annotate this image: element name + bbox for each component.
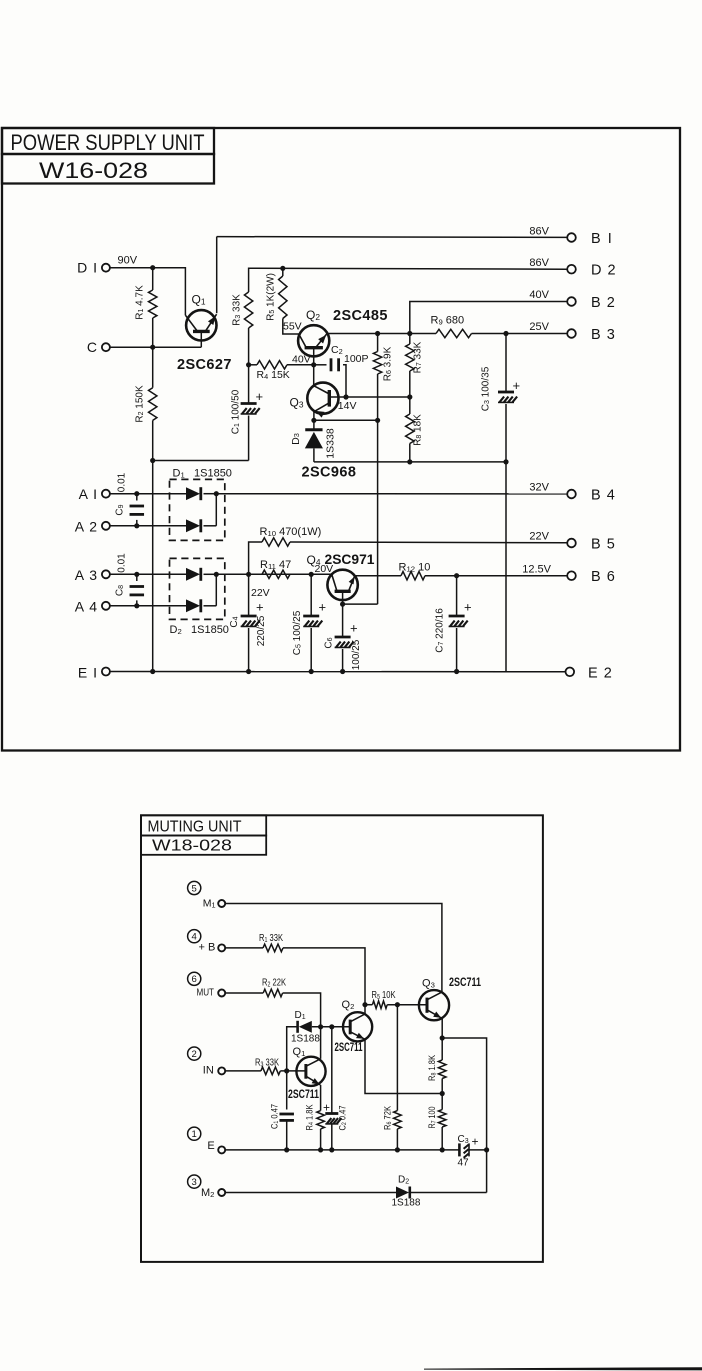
svg-text:E 2: E 2 <box>588 666 613 682</box>
svg-text:D 2: D 2 <box>591 263 617 279</box>
svg-text:1S188: 1S188 <box>291 1034 320 1045</box>
svg-text:1S188: 1S188 <box>392 1198 421 1209</box>
svg-text:R3 33K: R3 33K <box>232 294 243 326</box>
svg-text:0.01: 0.01 <box>117 553 128 573</box>
svg-text:40V: 40V <box>529 289 549 301</box>
svg-text:C5 100/25: C5 100/25 <box>292 610 303 655</box>
svg-text:R1 4.7K: R1 4.7K <box>135 285 146 320</box>
svg-text:R12 10: R12 10 <box>399 562 431 574</box>
svg-text:R4 1.8K: R4 1.8K <box>305 1104 316 1131</box>
svg-text:R5 10K: R5 10K <box>372 990 396 1001</box>
svg-text:A 4: A 4 <box>75 598 98 614</box>
svg-text:90V: 90V <box>118 255 138 267</box>
svg-text:86V: 86V <box>529 257 549 269</box>
svg-text:+ B: + B <box>199 941 216 953</box>
svg-text:22V: 22V <box>251 587 270 599</box>
svg-text:B 3: B 3 <box>591 327 616 343</box>
svg-text:14V: 14V <box>338 400 357 412</box>
svg-text:R5 1K(2W): R5 1K(2W) <box>266 273 277 321</box>
svg-text:R2 22K: R2 22K <box>262 977 286 988</box>
svg-text:D I: D I <box>77 260 98 276</box>
svg-text:E: E <box>207 1140 214 1152</box>
svg-text:+: + <box>319 600 327 615</box>
svg-text:1S338: 1S338 <box>324 428 336 459</box>
svg-text:POWER SUPPLY UNIT: POWER SUPPLY UNIT <box>11 130 205 155</box>
svg-text:R7 100: R7 100 <box>427 1107 438 1129</box>
svg-text:IN: IN <box>203 1065 214 1077</box>
svg-text:2SC627: 2SC627 <box>177 357 232 373</box>
svg-text:12.5V: 12.5V <box>522 563 551 575</box>
svg-text:+: + <box>256 600 264 615</box>
svg-text:B 4: B 4 <box>591 488 616 504</box>
svg-text:2: 2 <box>192 1049 197 1060</box>
svg-text:25V: 25V <box>529 321 549 333</box>
svg-text:220/25: 220/25 <box>256 615 267 646</box>
svg-text:A 2: A 2 <box>75 518 98 534</box>
svg-text:C2 0.47: C2 0.47 <box>338 1106 349 1131</box>
svg-text:1: 1 <box>192 1129 197 1140</box>
svg-text:86V: 86V <box>529 225 549 237</box>
svg-text:+: + <box>513 378 521 393</box>
svg-text:4: 4 <box>192 932 197 943</box>
svg-text:R7 33K: R7 33K <box>413 341 424 373</box>
svg-text:100P: 100P <box>344 353 369 365</box>
svg-text:R6 3.9K: R6 3.9K <box>383 346 394 381</box>
svg-text:1S1850: 1S1850 <box>191 624 229 636</box>
svg-text:+: + <box>323 1100 330 1114</box>
svg-text:R8 18K: R8 18K <box>413 414 424 446</box>
svg-text:2SC711: 2SC711 <box>449 977 481 989</box>
svg-text:E I: E I <box>78 664 98 680</box>
svg-text:A 3: A 3 <box>75 567 98 583</box>
svg-text:+: + <box>472 1134 479 1148</box>
svg-text:D3: D3 <box>290 433 302 445</box>
svg-text:6: 6 <box>192 974 197 985</box>
svg-text:22V: 22V <box>529 531 549 543</box>
svg-text:C7 220/16: C7 220/16 <box>435 608 446 653</box>
svg-text:R6 72K: R6 72K <box>383 1105 394 1130</box>
svg-text:2SC968: 2SC968 <box>302 464 357 480</box>
svg-text:B 6: B 6 <box>591 569 616 585</box>
svg-text:5: 5 <box>192 883 197 894</box>
svg-text:B I: B I <box>591 231 613 247</box>
svg-text:2SC711: 2SC711 <box>335 1042 363 1054</box>
svg-text:R11 47: R11 47 <box>260 559 291 571</box>
svg-text:55V: 55V <box>283 321 302 333</box>
svg-text:1S1850: 1S1850 <box>194 468 232 480</box>
svg-text:R3 33K: R3 33K <box>255 1057 279 1068</box>
svg-text:100/25: 100/25 <box>351 639 362 670</box>
svg-text:A I: A I <box>79 486 98 502</box>
svg-text:R8 1.8K: R8 1.8K <box>427 1054 438 1081</box>
svg-text:MUTING UNIT: MUTING UNIT <box>148 818 242 835</box>
svg-text:2SC485: 2SC485 <box>333 308 388 324</box>
svg-text:MUT: MUT <box>197 987 215 999</box>
svg-text:W18-028: W18-028 <box>152 838 232 855</box>
svg-text:R9 680: R9 680 <box>431 314 465 326</box>
svg-text:+: + <box>350 621 358 636</box>
svg-text:W16-028: W16-028 <box>39 158 148 183</box>
svg-text:C1 0.47: C1 0.47 <box>270 1104 281 1129</box>
svg-text:32V: 32V <box>529 482 549 494</box>
svg-text:C3 100/35: C3 100/35 <box>481 366 492 411</box>
svg-text:B 5: B 5 <box>591 537 616 553</box>
svg-text:R1 33K: R1 33K <box>259 933 283 944</box>
svg-text:R4 15K: R4 15K <box>257 369 290 381</box>
svg-text:+: + <box>256 389 264 404</box>
svg-text:R2 150K: R2 150K <box>135 385 146 423</box>
svg-text:2SC711: 2SC711 <box>288 1089 319 1101</box>
svg-text:0.01: 0.01 <box>117 472 128 492</box>
svg-text:47: 47 <box>458 1158 470 1169</box>
svg-text:3: 3 <box>192 1177 197 1188</box>
svg-text:B 2: B 2 <box>591 295 616 311</box>
svg-text:C: C <box>87 339 97 355</box>
svg-text:+: + <box>464 600 472 615</box>
svg-text:20V: 20V <box>315 563 334 575</box>
svg-text:C1 100/50: C1 100/50 <box>231 389 242 434</box>
